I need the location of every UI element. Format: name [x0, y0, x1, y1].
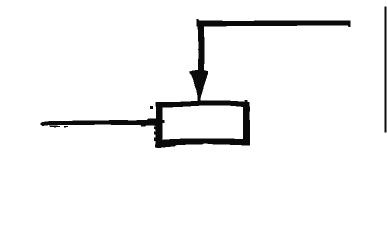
tick left of box top corner: [150, 106, 153, 109]
wire: top horizontal segment: [196, 19, 350, 27]
lead line exiting left (tapered tail): [41, 118, 157, 127]
process box (hand-drawn rectangle): [154, 100, 250, 147]
wire: vertical drop segment: [198, 21, 205, 71]
right margin vertical rule: [384, 7, 386, 133]
arrowhead into box top: [189, 70, 208, 102]
extra pen stroke under box bottom-left: [155, 144, 176, 148]
